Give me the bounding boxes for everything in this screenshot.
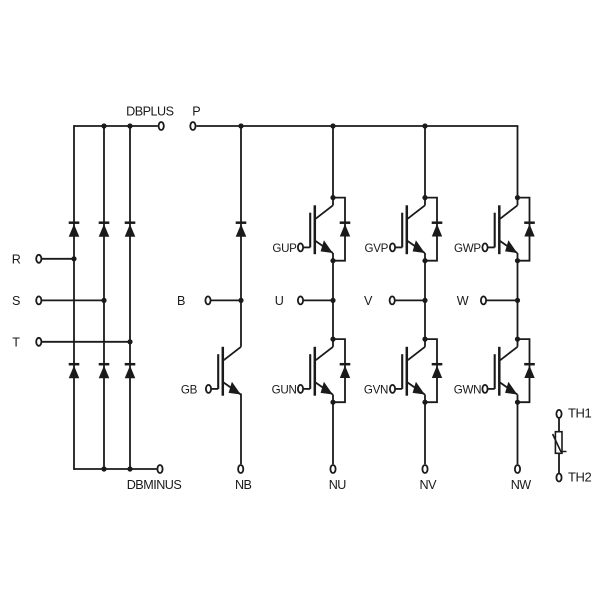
wire R input	[41, 258, 74, 260]
node T junction	[127, 339, 132, 344]
svg-text:DBPLUS: DBPLUS	[126, 104, 173, 118]
transistor GVN	[390, 347, 425, 396]
diode GWN freewheel	[518, 339, 535, 402]
wire brake emitter to NB	[240, 394, 242, 465]
svg-text:R: R	[12, 252, 21, 266]
node V leg/P junction	[422, 123, 427, 128]
rectifier diode S lower	[99, 364, 110, 378]
terminal DBMINUS	[157, 465, 162, 473]
rectifier diode S upper	[99, 223, 110, 237]
terminal NB	[238, 465, 243, 473]
rectifier diode R lower	[69, 364, 80, 378]
terminal S	[36, 296, 41, 304]
svg-text:NU: NU	[329, 478, 347, 492]
transistor GUP	[298, 205, 333, 254]
svg-text:NV: NV	[420, 478, 438, 492]
node U output junction	[330, 298, 335, 303]
terminal V	[390, 296, 395, 304]
node B junction	[238, 298, 243, 303]
wire V leg lower	[424, 395, 426, 465]
svg-text:T: T	[12, 335, 20, 349]
terminal DBPLUS	[159, 122, 164, 130]
wire P bus	[196, 125, 518, 127]
svg-text:GVN: GVN	[364, 384, 388, 397]
wire V leg middle	[424, 253, 426, 347]
wire U output	[303, 299, 333, 301]
svg-text:GWP: GWP	[454, 242, 481, 255]
node V upper collector junction	[422, 195, 427, 200]
terminal P	[190, 122, 195, 130]
terminal NV	[422, 465, 427, 473]
svg-text:DBMINUS: DBMINUS	[127, 478, 182, 492]
terminal NU	[330, 465, 335, 473]
wire rectifier leg 3 (x=130)	[129, 126, 131, 469]
wire thermistor to TH2	[558, 453, 560, 473]
rectifier diode T lower	[125, 364, 136, 378]
thermistor body	[553, 432, 567, 454]
node brake leg/P junction	[238, 123, 243, 128]
brake clamp diode	[236, 223, 247, 237]
node U upper collector junction	[330, 195, 335, 200]
svg-text:GUP: GUP	[272, 242, 297, 255]
node S junction	[101, 298, 106, 303]
terminal T	[36, 338, 41, 346]
transistor GUN	[298, 347, 333, 396]
rectifier diode R upper	[69, 223, 80, 237]
wire brake leg upper	[240, 126, 242, 347]
wire TH1 to thermistor	[558, 418, 560, 432]
wire U leg middle	[332, 253, 334, 347]
wire V output	[395, 299, 425, 301]
diode GVN freewheel	[425, 339, 442, 402]
wire DBPLUS bus	[74, 125, 158, 127]
node V lower emitter junction	[422, 400, 427, 405]
svg-text:U: U	[275, 294, 284, 308]
svg-text:P: P	[192, 104, 200, 118]
terminal B	[205, 296, 210, 304]
terminal NW	[515, 465, 520, 473]
rectifier diode T upper	[125, 223, 136, 237]
wire W output	[486, 299, 517, 301]
transistor GWP	[482, 205, 517, 254]
svg-text:V: V	[364, 294, 373, 308]
wire W leg upper	[517, 126, 519, 205]
node U lower collector junction	[330, 337, 335, 342]
svg-text:B: B	[177, 294, 185, 308]
svg-text:GWN: GWN	[454, 384, 481, 397]
wire W leg middle	[517, 253, 519, 347]
node W lower collector junction	[515, 337, 520, 342]
terminal W	[481, 296, 486, 304]
wire rectifier leg 2 (x=104)	[103, 126, 105, 469]
node U leg/P junction	[330, 123, 335, 128]
transistor GVP	[390, 205, 425, 254]
svg-text:GB: GB	[181, 384, 198, 397]
wire S input	[41, 299, 104, 301]
node R junction	[71, 256, 76, 261]
terminal TH2	[556, 474, 561, 482]
terminal U	[298, 296, 303, 304]
wire DBMINUS bus	[74, 468, 157, 470]
svg-text:TH1: TH1	[568, 405, 592, 420]
node V upper emitter junction	[422, 258, 427, 263]
node leg3/DBPLUS junction	[127, 123, 132, 128]
node leg3/DBMINUS junction	[127, 466, 132, 471]
wire W leg lower	[517, 395, 519, 465]
wire B input	[211, 299, 241, 301]
wire U leg upper	[332, 126, 334, 205]
diode GUP freewheel	[333, 198, 350, 261]
node W lower emitter junction	[515, 400, 520, 405]
svg-text:TH2: TH2	[568, 469, 592, 484]
svg-text:NW: NW	[511, 478, 532, 492]
svg-text:S: S	[12, 294, 20, 308]
svg-text:GVP: GVP	[365, 242, 389, 255]
svg-text:W: W	[457, 294, 469, 308]
terminal R	[36, 255, 41, 263]
node V lower collector junction	[422, 337, 427, 342]
svg-text:NB: NB	[235, 478, 252, 492]
node U upper emitter junction	[330, 258, 335, 263]
node leg2/DBPLUS junction	[101, 123, 106, 128]
transistor GB (brake IGBT)	[206, 347, 241, 396]
node U lower emitter junction	[330, 400, 335, 405]
node W output junction	[515, 298, 520, 303]
wire T input	[41, 341, 130, 343]
node V output junction	[422, 298, 427, 303]
diode GVP freewheel	[425, 198, 442, 261]
svg-text:GUN: GUN	[272, 384, 297, 397]
transistor GWN	[482, 347, 517, 396]
diode GUN freewheel	[333, 339, 350, 402]
node leg2/DBMINUS junction	[101, 466, 106, 471]
node W upper emitter junction	[515, 258, 520, 263]
diode GWP freewheel	[518, 198, 535, 261]
terminal TH1	[556, 410, 561, 418]
wire rectifier leg 1 (x=74)	[73, 125, 75, 470]
node W upper collector junction	[515, 195, 520, 200]
wire U leg lower	[332, 395, 334, 465]
wire V leg upper	[424, 126, 426, 205]
